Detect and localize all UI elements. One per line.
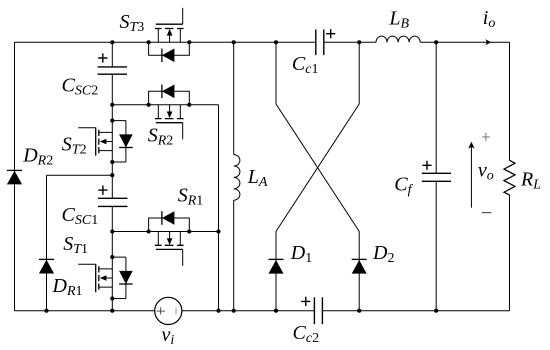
- transistor S_T3 (with body diode): [149, 8, 190, 62]
- diode D_1 triangle: [269, 260, 284, 274]
- wire left edge: [14, 42, 16, 310]
- transistor S_R2 (with body diode): [149, 85, 190, 140]
- source v_i circle: [155, 297, 182, 324]
- junction S_T2 top: [110, 119, 114, 123]
- S_T1 body arrow head: [100, 275, 107, 281]
- junction bottom bus / L_A branch: [232, 309, 236, 313]
- wire main left branch lower (C_SC1 to bottom bus): [111, 206, 113, 310]
- junction S_R1 row / right riser: [216, 229, 220, 233]
- source v_i plus sign: [157, 307, 165, 314]
- diode D_R1: [39, 258, 54, 260]
- capacitor C_c1: [316, 29, 336, 55]
- transistor S_T2 (with body diode): [78, 121, 133, 162]
- junction C_SC1 bottom node: [110, 229, 114, 233]
- junction top bus / C_SC2 branch: [110, 40, 114, 44]
- junction bottom bus / main branch: [110, 309, 114, 313]
- wire C_f branch upper: [435, 42, 437, 173]
- annotation v_o minus: [482, 212, 491, 214]
- capacitor C_SC1: [98, 186, 128, 207]
- junction bottom bus / D_2 branch: [357, 309, 361, 313]
- diode D_2: [352, 258, 367, 260]
- annotation v_o plus: [482, 133, 490, 142]
- S_T3 body diode triangle: [162, 49, 175, 63]
- junction top bus / C_c1 right: [357, 40, 361, 44]
- wire cross branch (C_c1 left node to D_2): [276, 42, 359, 310]
- wire right riser x=218.5: [218, 105, 220, 311]
- wire L_A branch upper: [233, 42, 235, 154]
- junction S_R1 right: [187, 229, 191, 233]
- diode D_R1 triangle: [39, 260, 54, 274]
- junction S_T1 bottom: [110, 296, 114, 300]
- wire right edge upper: [509, 42, 511, 160]
- junction S_T2 bottom: [110, 160, 114, 164]
- junction top bus / C_f branch: [434, 40, 438, 44]
- capacitor C_SC2: [98, 53, 127, 74]
- S_T1 body diode triangle: [119, 271, 133, 284]
- wire top bus left segment: [15, 41, 316, 43]
- junction S_T1 top: [110, 255, 114, 259]
- junction bottom bus / right riser: [216, 309, 220, 313]
- wire S_R1 row (node to right riser): [112, 231, 218, 233]
- transistor S_T1 (with body diode): [78, 257, 133, 298]
- wire cross branch (C_c1 right node to D_1): [276, 42, 359, 310]
- wire main left branch middle (C_SC2 to C_SC1): [111, 74, 113, 198]
- junction D_R1 branch node: [110, 173, 114, 177]
- junction S_R2 right: [187, 103, 191, 107]
- wire top bus right segment: [420, 41, 509, 43]
- wire bottom bus middle segment: [182, 310, 315, 312]
- S_R2 body diode triangle: [162, 85, 175, 99]
- wire bottom bus right segment: [322, 310, 509, 312]
- diode D_2 triangle: [352, 260, 367, 274]
- S_T3 body arrow head: [167, 29, 173, 36]
- wire node to D_R1 branch (horizontal): [47, 174, 113, 176]
- wire C_f branch lower: [435, 181, 437, 310]
- wire D_R1 branch vertical: [46, 175, 48, 311]
- capacitor C_c2: [301, 297, 322, 324]
- junction bottom bus / D_1 branch: [274, 309, 278, 313]
- wire L_A branch lower: [233, 200, 235, 311]
- S_T2 body arrow head: [100, 139, 107, 145]
- junction C_SC2 bottom node: [110, 103, 114, 107]
- S_R1 body arrow head: [167, 238, 173, 245]
- junction bottom bus / D_R1 branch: [44, 309, 48, 313]
- junction S_R1 left: [147, 229, 151, 233]
- junction top bus / L_A branch: [232, 40, 236, 44]
- junction S_R2 left: [147, 103, 151, 107]
- S_R1 body diode triangle: [162, 211, 175, 225]
- diode D_R2 triangle: [7, 171, 22, 185]
- junction bottom bus / C_f branch: [434, 309, 438, 313]
- inductor L_B coil: [376, 36, 420, 42]
- wire top bus middle segment: [324, 41, 376, 43]
- transistor S_R1 (with body diode): [149, 211, 190, 266]
- resistor R_L: [504, 160, 515, 195]
- diode D_1: [269, 258, 284, 260]
- annotation i_o arrow head: [486, 39, 491, 45]
- diode D_R2: [7, 169, 22, 171]
- S_R2 body arrow head: [167, 112, 173, 119]
- junction top bus / C_c1 left: [274, 40, 278, 44]
- junction S_T3 left: [147, 40, 151, 44]
- wire right edge lower: [509, 195, 511, 311]
- inductor L_A coil: [234, 155, 240, 201]
- S_T2 body diode triangle: [119, 134, 133, 147]
- annotation v_o arrow: [470, 146, 472, 208]
- capacitor C_f: [422, 161, 451, 182]
- wire bottom bus left segment: [15, 310, 155, 312]
- junction S_T3 right: [187, 40, 191, 44]
- wire S_R2 row (node to right riser): [112, 104, 218, 106]
- source v_i minus bar: [175, 307, 177, 314]
- wire main left branch upper (top bus to C_SC2): [111, 42, 113, 67]
